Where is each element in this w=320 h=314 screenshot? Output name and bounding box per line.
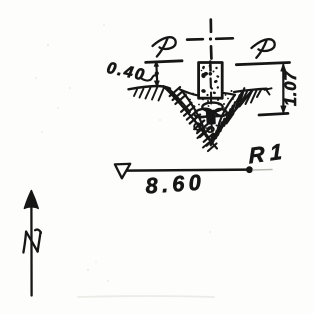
bottom tick of depth dimension — [259, 113, 288, 115]
north arrow shaft — [30, 206, 33, 296]
faint paper smudge bottom — [78, 295, 214, 298]
small stones / circles in pit — [194, 123, 214, 133]
pit left outer wall double stroke — [169, 89, 191, 113]
pit left outer wall — [164, 86, 212, 142]
left wall hatch groups — [170, 87, 186, 104]
dimension arrow 0.40 (vertical, arrow up / dots / arrow down) — [154, 62, 159, 87]
left wall hatch group 2 — [181, 103, 200, 124]
buried mark: solid anchor blob — [207, 111, 216, 125]
north arrow head — [24, 191, 38, 209]
left wall hatch group 4 (tip) — [204, 134, 217, 146]
depth dimension line 1.07 (vertical with arrows) — [281, 64, 286, 113]
right wall hatch groups — [236, 88, 245, 108]
pit tip crossing strokes — [198, 132, 218, 151]
svg-text:R1: R1 — [248, 138, 288, 168]
distance line to reference — [127, 170, 249, 171]
reference point dot R1 — [246, 166, 253, 173]
faint paper speckle field — [35, 24, 210, 281]
monument stipple dots — [201, 65, 220, 96]
buried mark: ellipse top — [202, 103, 222, 112]
svg-text:0.40: 0.40 — [105, 59, 147, 85]
witness triangle (nabla) — [115, 164, 130, 179]
right wall hatch group 2 — [224, 102, 235, 126]
faint pencil stroke right of dot — [253, 169, 272, 172]
pit right outer wall — [212, 90, 252, 142]
reference level line right (P) — [236, 63, 289, 65]
pit right inner wall — [218, 95, 236, 131]
ground line left of pit — [129, 86, 171, 89]
svg-text:1.07: 1.07 — [282, 71, 300, 106]
ground hatch ticks right — [237, 90, 262, 104]
leader squiggle from 0.40 to arrow — [142, 75, 157, 80]
ground line right of pit — [234, 89, 267, 92]
pit mouth line to monument left corner — [180, 90, 199, 96]
label P left — [153, 37, 176, 56]
monument (concrete post) outline — [199, 63, 223, 99]
right wall hatch group 4 (tip) — [211, 131, 217, 146]
pit left inner wall — [182, 91, 206, 134]
reference level line left (top of monument, P) — [146, 61, 182, 63]
right wall inner parallel segments — [216, 97, 248, 139]
right wall hatch group 3 — [216, 119, 225, 138]
north letter N — [23, 230, 41, 253]
ground hatch ticks left — [134, 87, 165, 101]
pit mouth line to monument right corner — [222, 93, 235, 95]
buried mark: ellipse right — [215, 108, 227, 116]
left wall inner parallel segments — [172, 93, 208, 138]
buried mark: cross tick — [196, 116, 223, 117]
centreline dashes through monument — [209, 62, 213, 142]
pit bottom tip — [206, 131, 218, 142]
buried mark: ellipse left — [194, 108, 212, 119]
centre cross (dash-dot point symbol) — [187, 20, 233, 59]
svg-text:8.60: 8.60 — [145, 169, 206, 198]
pit fill dots — [186, 90, 234, 136]
detached ground tick far right — [265, 88, 272, 94]
left wall hatch group 3 — [194, 121, 210, 138]
label P right — [252, 39, 275, 58]
